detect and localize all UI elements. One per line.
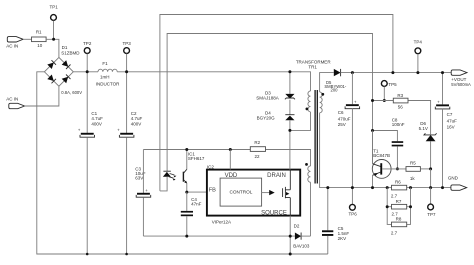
svg-text:R2: R2 — [254, 140, 260, 145]
svg-text:2.7: 2.7 — [391, 193, 398, 198]
polarity dot aux — [305, 163, 308, 166]
polarity dot primary — [306, 108, 309, 111]
wire source/ground link line — [143, 235, 295, 237]
wire TP3 down / C2 column — [126, 54, 128, 133]
test point TP6 — [348, 204, 357, 216]
svg-text:TP7: TP7 — [427, 212, 436, 217]
test point TP1 — [49, 5, 58, 40]
wire parallel rails R7/R8 — [387, 188, 410, 225]
junction drain/D4/primary — [288, 129, 291, 132]
junction C8/collector — [371, 129, 374, 132]
bridge rectifier D1 — [44, 45, 82, 95]
wire inductor to transformer primary — [117, 72, 310, 91]
junction R7 left — [386, 205, 389, 208]
svg-text:BC847B: BC847B — [373, 153, 390, 158]
diode D1a (top-left edge) — [47, 63, 54, 70]
svg-text:BAV103: BAV103 — [293, 244, 310, 249]
svg-text:200: 200 — [331, 88, 339, 93]
svg-text:D4: D4 — [265, 110, 271, 115]
resistor R1 — [32, 30, 47, 49]
resistor R3 — [393, 93, 408, 109]
wire AC IN 1 to R1 — [23, 38, 31, 40]
svg-text:47uF: 47uF — [447, 118, 458, 123]
LED of IC1 — [163, 172, 171, 177]
svg-text:SFH617: SFH617 — [188, 156, 205, 161]
wire feedback inner loop (opto cathode to T1 collector) — [167, 34, 372, 172]
optocoupler IC1 SFH617 — [160, 150, 205, 193]
svg-text:VIPer12A: VIPer12A — [212, 219, 231, 224]
wire FB line — [187, 191, 207, 193]
svg-text:C7: C7 — [447, 112, 453, 117]
junction outer loop to +VOUT rail — [391, 71, 394, 74]
svg-text:2KV: 2KV — [338, 236, 347, 241]
resistor R8 — [391, 217, 407, 236]
primary winding TR1 — [308, 91, 311, 112]
junction D5/C6 — [351, 71, 354, 74]
core TR1 — [315, 90, 317, 184]
svg-text:400V: 400V — [131, 122, 142, 127]
diode D2 BAV103 — [293, 224, 310, 249]
svg-text:AC IN: AC IN — [6, 43, 18, 48]
wire R3 line — [373, 101, 431, 135]
gate arrow IC2 — [262, 192, 271, 194]
svg-text:0.8A, 600V: 0.8A, 600V — [61, 90, 82, 95]
svg-text:TP4: TP4 — [414, 39, 423, 44]
test point TP4 — [414, 39, 423, 74]
junction VDD pin — [229, 148, 232, 151]
svg-text:CONTROL: CONTROL — [229, 190, 252, 195]
svg-text:16V: 16V — [447, 125, 455, 130]
wire AC IN 2 to bridge bottom — [25, 86, 59, 106]
wire VDD line (C3 to aux winding, through R2) — [143, 150, 310, 167]
resistor R2 — [250, 140, 265, 159]
junction parallel right top — [409, 186, 412, 189]
wire feedback outer loop (opto anode to +VOUT rail) — [160, 15, 393, 191]
capacitor C3 — [135, 150, 150, 237]
svg-text:AC IN: AC IN — [6, 97, 18, 102]
svg-text:TP3: TP3 — [122, 41, 131, 46]
wire drain to primary bottom — [290, 112, 311, 130]
test point TP2 — [83, 41, 92, 54]
junction parallel left top — [386, 186, 389, 189]
wire bridge minus to ground rail — [37, 72, 328, 254]
resistor R7 — [392, 199, 407, 216]
svg-text:R1: R1 — [36, 30, 42, 35]
capacitor C2 — [117, 111, 142, 255]
polarity dot secondary — [321, 93, 324, 96]
test point TP3 — [122, 41, 131, 54]
svg-text:470uF: 470uF — [338, 116, 351, 121]
diode D1d (bottom-right edge) — [62, 77, 68, 84]
wire VDD pin — [229, 150, 231, 170]
wire secondary top to D5 — [320, 73, 334, 92]
junction TP1/R1 — [52, 38, 55, 41]
svg-text:SOURCE: SOURCE — [261, 211, 287, 217]
svg-text:D1: D1 — [62, 45, 68, 50]
capacitor C5 — [322, 186, 349, 254]
connector +VOUT — [451, 70, 471, 87]
junction snubber top — [288, 70, 291, 73]
transformer TR1 — [296, 59, 451, 236]
wire D6/R5 to ground rail — [430, 169, 432, 188]
capacitor C7 — [435, 71, 457, 189]
svg-text:100nF: 100nF — [392, 122, 405, 127]
test point TP5 — [381, 81, 397, 102]
wire bridge plus rail — [73, 71, 98, 73]
svg-text:IC2: IC2 — [207, 164, 215, 169]
wire source pin down — [289, 216, 291, 254]
wire snubber branch — [289, 72, 291, 94]
wire D3 to D4 — [289, 100, 291, 115]
svg-text:4.7uF: 4.7uF — [91, 116, 103, 121]
svg-text:SMAJ188A: SMAJ188A — [256, 96, 279, 101]
resistor R5 — [406, 160, 431, 181]
transistor T1 BC847B — [371, 131, 406, 190]
svg-text:10: 10 — [37, 43, 43, 48]
wire D4 to drain/primary junction — [289, 120, 291, 169]
svg-text:1mH: 1mH — [100, 74, 110, 79]
resistor R6 — [391, 180, 407, 199]
wire R1 to bridge top — [46, 39, 59, 57]
svg-text:FB: FB — [209, 187, 216, 193]
phototransistor IC1 — [182, 172, 184, 182]
svg-text:TP1: TP1 — [49, 5, 58, 10]
junction TP3 rail — [125, 70, 128, 73]
svg-text:2.7: 2.7 — [391, 230, 398, 235]
junction source/ground rail — [289, 253, 292, 256]
svg-text:S1ZBMD: S1ZBMD — [61, 51, 80, 56]
svg-text:D2: D2 — [294, 224, 300, 229]
svg-text:1k: 1k — [410, 176, 416, 181]
svg-text:5.1V: 5.1V — [419, 126, 428, 131]
secondary winding TR1 — [320, 92, 323, 113]
diode D5 SMBYW01-200 — [324, 69, 451, 93]
capacitor C1 — [78, 111, 103, 255]
junction TP2 rail — [86, 70, 89, 73]
svg-text:5V/600mA: 5V/600mA — [451, 82, 471, 87]
wire secondary bottom to output ground rail — [320, 113, 451, 188]
junction R3 line / feedback column — [371, 99, 374, 102]
svg-text:TP5: TP5 — [388, 82, 397, 87]
svg-text:R8: R8 — [396, 217, 402, 222]
junction rail/TP7 column — [429, 186, 432, 189]
diode D1c (bottom-left edge) — [47, 75, 54, 82]
svg-text:INDUCTOR: INDUCTOR — [96, 81, 120, 86]
test point TP7 — [427, 188, 436, 217]
svg-text:GND: GND — [448, 176, 459, 181]
svg-text:22: 22 — [254, 154, 260, 159]
diode D6 5.1V zener — [419, 121, 437, 169]
svg-text:F1: F1 — [102, 61, 108, 66]
svg-text:47nF: 47nF — [191, 202, 202, 207]
wire TP2 down / C1 column — [86, 54, 88, 133]
svg-text:BGY20G: BGY20G — [257, 116, 276, 121]
connector GND — [448, 176, 467, 191]
control block IC2 — [220, 178, 262, 206]
svg-text:4.7uF: 4.7uF — [131, 116, 143, 121]
svg-text:R7: R7 — [396, 199, 402, 204]
diode D3 SMAJ188A (transil) — [256, 91, 295, 101]
svg-text:TP6: TP6 — [348, 212, 357, 217]
connector AC IN (line 2) — [6, 97, 24, 109]
junction FB/opto emitter/C4 — [185, 191, 188, 194]
IC IC2 VIPer12A — [207, 164, 300, 224]
svg-text:400V: 400V — [91, 122, 102, 127]
junction R7 right — [409, 205, 412, 208]
aux winding TR1 — [308, 166, 311, 182]
svg-text:TP2: TP2 — [83, 41, 92, 46]
svg-text:56: 56 — [398, 104, 404, 109]
arrows IC1 — [169, 174, 175, 179]
svg-text:DRAIN: DRAIN — [267, 173, 286, 179]
capacitor C4 — [181, 192, 202, 238]
svg-text:R5: R5 — [410, 160, 416, 165]
svg-text:63V: 63V — [135, 176, 143, 181]
diode D4 BGY20G — [257, 110, 295, 120]
junction opto collector — [185, 148, 188, 151]
capacitor C6 — [338, 73, 360, 205]
junction source/D2 line — [289, 235, 292, 238]
wire aux bottom to D2 line — [310, 182, 312, 236]
svg-text:TR1: TR1 — [308, 64, 317, 69]
connector AC IN (line 1) — [6, 37, 23, 49]
capacitor C8 — [392, 118, 405, 171]
svg-text:C6: C6 — [338, 110, 344, 115]
diode D1b (top-right edge) — [62, 60, 68, 66]
junction R5/D6 — [429, 167, 432, 170]
junction C6/ground rail — [351, 186, 354, 189]
svg-text:R6: R6 — [395, 180, 401, 185]
wire C8 branch — [373, 131, 398, 142]
svg-text:25V: 25V — [338, 122, 346, 127]
inductor F1 — [96, 61, 120, 86]
mosfet IC2 — [283, 187, 291, 198]
svg-text:R3: R3 — [397, 93, 403, 98]
